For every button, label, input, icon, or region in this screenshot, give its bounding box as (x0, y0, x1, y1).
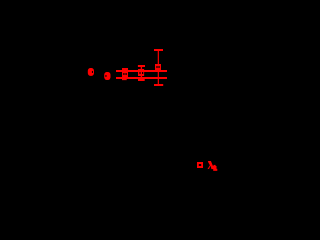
legend open square (197, 162, 203, 168)
legend label subscript (213, 165, 217, 171)
square marker M2 with error bar caps (138, 65, 145, 81)
lower horizontal line (116, 77, 167, 79)
square marker M3 with long vertical error bar (154, 49, 163, 86)
upper horizontal line (116, 70, 167, 72)
square marker M1 with lower cap (122, 68, 128, 80)
data point circle 1 (88, 68, 94, 76)
legend label lambda (207, 161, 213, 169)
data point circle 2 (104, 72, 110, 80)
